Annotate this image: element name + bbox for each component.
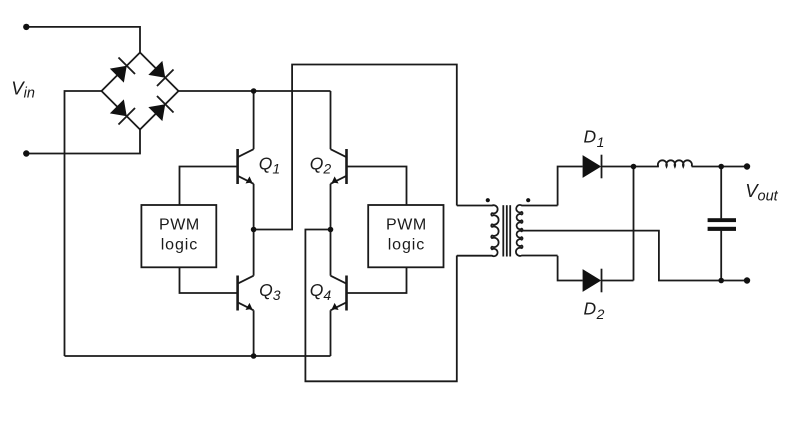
junction node: D1 cathode [631, 164, 637, 170]
wire: Q2 base to PWM logic 2 top [347, 167, 407, 206]
wire: Vin+ terminal to bridge top [26, 27, 140, 53]
transformer secondary winding [516, 205, 558, 256]
capacitor C top plate [708, 218, 736, 222]
wire: bridge left vertex down to bottom rail [65, 91, 102, 356]
junction node A: Q1 emitter / Q3 collector [251, 227, 257, 233]
transistor Q1 [238, 149, 254, 184]
svg-text:PWM: PWM [159, 217, 200, 234]
bridge diode bottom-left [109, 98, 135, 124]
wire: Q4 collector from node B [330, 230, 332, 276]
wire: Q3 emitter to bottom rail [253, 310, 255, 356]
bridge rectifier diamond [102, 53, 179, 130]
svg-text:Q3: Q3 [259, 280, 281, 303]
transformer primary phase dot [486, 198, 490, 202]
bridge diode top-left [109, 57, 135, 83]
junction node: filter cap top [718, 164, 724, 170]
junction node B: Q2 emitter / Q4 collector [328, 227, 334, 233]
terminal Vout+ [744, 163, 750, 169]
wire: Q3 collector from node A [253, 230, 255, 276]
svg-text:Q2: Q2 [310, 153, 332, 176]
wire: Q1 base to PWM logic 1 top [180, 167, 238, 206]
svg-text:Q1: Q1 [259, 153, 280, 176]
bridge diode top-right [147, 60, 173, 86]
wire: D2 cathode to D1 node [602, 280, 634, 282]
inductor L [658, 160, 692, 166]
wire: capacitor top lead [720, 167, 722, 219]
wire: Q2 emitter to node B [330, 184, 332, 230]
wire: node A up-and-over to transformer primary top [254, 65, 457, 230]
wire: Q2 collector drop [330, 91, 332, 149]
transformer secondary phase dot [526, 198, 530, 202]
wire: capacitor bottom lead [720, 231, 722, 281]
svg-text:logic: logic [161, 237, 198, 254]
transistor Q4 [331, 276, 347, 311]
svg-text:Vin: Vin [11, 77, 35, 101]
wire: Vin- terminal to bridge bottom [26, 130, 140, 154]
wire: Q1 collector [253, 91, 255, 149]
wire: secondary center tap [522, 231, 747, 281]
wire: bridge right vertex to Q1/Q2 collectors [179, 90, 331, 92]
junction node: filter cap bottom [718, 278, 724, 284]
svg-text:Vout: Vout [745, 180, 778, 205]
wire: secondary bottom to D2 [558, 256, 583, 281]
terminal Vin- [23, 150, 29, 156]
terminal Vin+ [23, 24, 29, 30]
wire: inductor to Vout+ [692, 166, 747, 168]
wire: node B down-and-under to transformer primary bottom [305, 230, 456, 382]
wire: PWM logic 1 bottom to Q3 base [180, 267, 238, 293]
transformer core [502, 205, 504, 256]
diode D1 [583, 155, 602, 179]
diode D2 [583, 269, 602, 293]
svg-text:Q4: Q4 [310, 280, 332, 303]
wire: D1 cathode to inductor [602, 166, 659, 168]
svg-text:D1: D1 [584, 127, 605, 151]
junction node: bridge output / Q1 collector [251, 88, 257, 94]
PWM logic block 2 [368, 205, 443, 267]
wire: PWM logic 2 bottom to Q4 base [347, 267, 407, 293]
wire: D1 node down to D2 cathode [633, 167, 635, 281]
capacitor C bottom plate [708, 227, 736, 231]
transistor Q3 [238, 276, 254, 311]
terminal Vout- [744, 277, 750, 283]
wire: Q4 emitter to bottom rail [330, 310, 332, 356]
PWM logic block 1 [141, 205, 216, 267]
svg-text:PWM: PWM [386, 217, 427, 234]
wire: secondary top to D1 [558, 167, 583, 206]
svg-text:logic: logic [388, 237, 425, 254]
wire: bottom rail (Q3/Q4 emitters to bridge return) [65, 355, 331, 357]
junction node: Q3 emitter on bottom rail [251, 353, 257, 359]
wire: Q1 emitter to node A [253, 184, 255, 230]
bridge diode bottom-right [147, 96, 173, 122]
svg-text:D2: D2 [584, 299, 605, 323]
transformer primary winding [457, 205, 499, 256]
transistor Q2 [331, 149, 347, 184]
